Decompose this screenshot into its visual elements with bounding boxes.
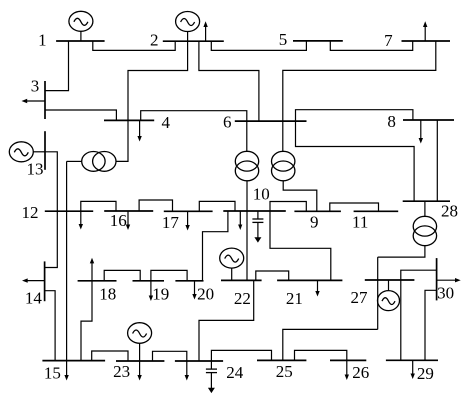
bus 16 <box>104 210 153 212</box>
capacitor bus 24 with ground <box>206 361 217 393</box>
svg-text:30: 30 <box>437 284 454 303</box>
load arrow bus 24 (down) <box>185 361 189 381</box>
bus 2 <box>163 40 224 42</box>
load arrow bus 3 (left) <box>22 99 46 103</box>
wire 6-28 <box>296 121 415 201</box>
svg-text:23: 23 <box>113 362 130 381</box>
capacitor bus 10 <box>252 211 263 243</box>
svg-text:21: 21 <box>286 289 303 308</box>
load arrow bus 7 (up) <box>423 21 427 41</box>
bus 19 <box>133 280 165 282</box>
generator G2 <box>176 12 200 42</box>
wire 18-19 bridge <box>104 270 140 280</box>
svg-text:9: 9 <box>310 212 319 231</box>
svg-text:20: 20 <box>197 285 214 304</box>
wire 2-4 <box>128 41 188 120</box>
bus 17 <box>164 210 213 212</box>
svg-text:22: 22 <box>234 289 251 308</box>
svg-text:29: 29 <box>417 364 434 383</box>
bus 18 <box>78 280 117 282</box>
svg-text:8: 8 <box>387 112 396 131</box>
bus 3 (vertical) <box>44 81 46 119</box>
load arrow bus 20 (down) <box>192 281 196 300</box>
load arrow bus 30 (right) <box>437 278 461 282</box>
bus 15 <box>42 360 105 362</box>
bus 6 <box>235 120 307 122</box>
svg-text:19: 19 <box>152 285 169 304</box>
bus 26 <box>330 359 366 361</box>
svg-text:16: 16 <box>110 211 127 230</box>
load arrow bus 2 (up) <box>203 21 207 41</box>
bus 23 <box>116 360 164 362</box>
bus 14 (vertical) <box>44 261 46 301</box>
svg-text:28: 28 <box>441 201 458 220</box>
bus 10 <box>223 210 285 212</box>
wire 6-8 <box>296 110 413 121</box>
generator G23 <box>128 323 152 361</box>
bus 20 <box>175 280 203 282</box>
wire 19-20 bridge with load arrow bus 19 <box>149 270 187 301</box>
wire 2-5 <box>211 41 306 51</box>
bus 24 <box>175 360 223 362</box>
wire 24-25 bridge <box>211 350 271 361</box>
generator G22 <box>220 248 244 280</box>
transformer T4-12 <box>67 120 128 171</box>
svg-text:11: 11 <box>352 212 368 231</box>
wire 13-12-14 <box>45 152 58 268</box>
wire 10-20 <box>203 211 228 281</box>
wire 25-26 bridge with load arrow bus 26 <box>295 350 350 380</box>
bus 30 (vertical) <box>436 258 438 300</box>
wire 5-7 <box>330 41 412 51</box>
wire 10-21 <box>270 211 331 280</box>
load arrow bus 17 (down) <box>185 211 189 230</box>
bus 4 <box>104 119 154 121</box>
wire 27-29 <box>400 280 402 360</box>
bus 5 <box>293 40 343 42</box>
wire 16-17 bridge <box>139 200 172 211</box>
transformer T6-9 <box>272 121 317 211</box>
bus 27 <box>365 279 415 281</box>
bus 22 <box>221 279 262 281</box>
svg-text:4: 4 <box>162 113 171 132</box>
svg-text:5: 5 <box>279 30 288 49</box>
svg-text:25: 25 <box>276 362 293 381</box>
bus 9 <box>294 210 341 212</box>
svg-text:1: 1 <box>38 31 47 50</box>
svg-text:2: 2 <box>150 31 159 50</box>
wire 8-28 <box>436 120 438 201</box>
wire 27-30 <box>401 270 437 280</box>
svg-text:13: 13 <box>27 160 44 179</box>
wire 3-4 <box>45 110 116 120</box>
load arrow bus 18 (up) <box>90 258 94 281</box>
wire 9-11 bridge <box>330 203 379 211</box>
wire 12-16 bridge with load arrow bus 12 <box>79 201 116 229</box>
bus 8 <box>403 119 454 121</box>
generator G27 <box>378 280 400 311</box>
wire 1-2 <box>93 41 175 50</box>
svg-text:3: 3 <box>31 77 40 96</box>
bus 12 <box>45 210 93 212</box>
wire 10-22 <box>246 211 248 280</box>
bus 29 <box>386 359 438 361</box>
svg-text:18: 18 <box>99 285 116 304</box>
wire 17-10 bridge <box>199 201 235 211</box>
wire 6-7 <box>283 41 436 121</box>
wire 14-15 <box>45 291 56 361</box>
wire 1-3 <box>45 41 69 91</box>
wire 21-22 bridge <box>256 271 289 280</box>
bus 28 <box>403 200 450 202</box>
svg-text:6: 6 <box>223 112 232 131</box>
generator G1 <box>69 11 93 41</box>
load arrow bus 8 (down) <box>419 120 423 144</box>
bus 7 <box>402 40 451 42</box>
bus 1 <box>56 40 105 42</box>
svg-text:24: 24 <box>226 363 244 382</box>
wire 23-24 bridge <box>153 351 187 361</box>
svg-text:15: 15 <box>44 364 61 383</box>
svg-text:17: 17 <box>162 213 180 232</box>
wire 4-6 <box>141 111 247 121</box>
generator G13 <box>9 142 45 162</box>
svg-text:7: 7 <box>384 31 393 50</box>
svg-text:14: 14 <box>25 289 43 308</box>
load arrow bus 21 (down) <box>315 280 319 296</box>
wire 25-27 <box>283 329 378 360</box>
wire 15-23 bridge <box>92 351 128 361</box>
load arrow bus 10 (down) <box>238 211 242 230</box>
bus 13 (vertical) <box>44 131 46 170</box>
load arrow bus 14 (left) <box>22 278 45 282</box>
load arrow bus 16 (down) <box>126 211 130 230</box>
wire 2-6 <box>199 41 259 121</box>
transformer T6-10 <box>235 121 258 211</box>
bus 11 <box>354 210 399 212</box>
svg-text:12: 12 <box>22 203 39 222</box>
wire 12-15 with load arrow bus 15 <box>64 161 68 380</box>
load arrow bus 4 (down) <box>137 120 141 141</box>
transformer T28-27 <box>378 201 437 257</box>
wire 9-10 bridge <box>270 202 306 212</box>
wire 22-24 <box>199 280 254 361</box>
wire trafo-27 / 25-27 vertical <box>377 257 379 329</box>
svg-text:26: 26 <box>352 363 369 382</box>
bus 21 <box>277 279 342 281</box>
load arrow bus 23 (down) <box>137 361 141 381</box>
svg-text:10: 10 <box>253 185 270 204</box>
wire 29-30 <box>425 290 437 360</box>
wire 18-15 <box>81 281 92 361</box>
svg-text:27: 27 <box>351 288 369 307</box>
bus 25 <box>257 359 306 361</box>
load arrow bus 29 (down) <box>411 360 415 379</box>
